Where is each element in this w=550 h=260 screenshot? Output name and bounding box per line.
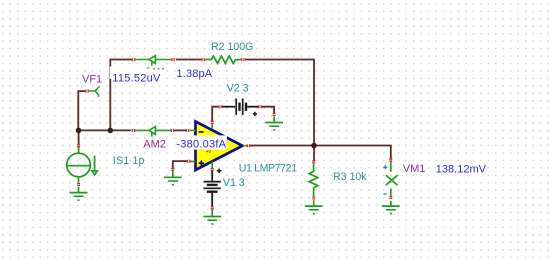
white box under 115.52uV bbox=[110, 67, 163, 80]
battery V2 plus sign bbox=[253, 112, 257, 116]
VM1 minus mark bbox=[383, 193, 386, 195]
svg-text:1.38pA: 1.38pA bbox=[177, 68, 213, 80]
svg-text:R2 100G: R2 100G bbox=[211, 41, 253, 53]
pin mark VF1 bbox=[86, 90, 88, 93]
junction node A (VF1/IS1) bbox=[76, 128, 82, 134]
wire opamp top supply to V2 bbox=[212, 107, 218, 121]
resistor R2 bbox=[205, 56, 241, 63]
ground VM1 bbox=[382, 206, 400, 214]
battery V1 plus sign bbox=[217, 169, 222, 174]
VF1 value marker dots bbox=[147, 66, 165, 74]
current arrow (1.38pA) on top rail bbox=[135, 56, 171, 66]
pin mark opamp top supply bbox=[211, 121, 214, 123]
wire inverting input rail bbox=[79, 129, 186, 131]
white box under -380.03fA bbox=[175, 135, 227, 149]
junction node OUT bbox=[311, 143, 317, 149]
op-amp U1 triangle bbox=[196, 122, 243, 171]
pin marks R2 bbox=[202, 58, 204, 61]
VM1 plus mark bbox=[383, 165, 387, 169]
wire output rail bbox=[250, 146, 391, 159]
svg-text:-380.03fA: -380.03fA bbox=[176, 138, 226, 150]
pin mark V2 ground bbox=[273, 114, 276, 116]
svg-text:V1 3: V1 3 bbox=[223, 177, 245, 189]
wire R3 branch bbox=[313, 146, 315, 161]
pin mark opamp +input bbox=[188, 160, 190, 163]
voltage pin VF1 probe bbox=[89, 87, 100, 97]
ground R3 bbox=[305, 200, 323, 213]
ammeter AM2 on inverting rail bbox=[135, 127, 171, 137]
ground IS1 bbox=[70, 187, 88, 200]
wire opamp + input bbox=[173, 161, 187, 168]
ground opamp + input bbox=[164, 171, 182, 185]
pin marks VM1 bbox=[389, 159, 392, 161]
pin marks IS1 bbox=[77, 145, 80, 147]
junction node B (feedback) bbox=[108, 128, 114, 134]
ground V2 bbox=[265, 117, 283, 131]
pin mark opamp+ ground bbox=[171, 168, 174, 170]
svg-text:U1 LMP7721: U1 LMP7721 bbox=[239, 162, 297, 174]
pin mark V1 bottom bbox=[211, 207, 214, 209]
value 138.12mV bbox=[435, 163, 485, 177]
svg-text:AM2: AM2 bbox=[143, 138, 166, 150]
svg-text:VF1: VF1 bbox=[82, 74, 102, 86]
pin marks V2 bbox=[219, 105, 221, 108]
voltmeter VM1 bbox=[386, 162, 398, 207]
svg-text:VM1: VM1 bbox=[403, 163, 426, 175]
pin marks R3 bbox=[312, 161, 315, 163]
pin mark opamp output bbox=[247, 144, 249, 147]
svg-text:R3 10k: R3 10k bbox=[333, 171, 367, 183]
op-amp minus sign bbox=[199, 131, 204, 133]
svg-text:138.12mV: 138.12mV bbox=[436, 163, 487, 175]
pin mark opamp bottom supply / V1 top bbox=[211, 169, 214, 171]
pin marks AM2 bbox=[132, 129, 134, 132]
ground V1 bbox=[203, 209, 221, 224]
wire IS1 branch bbox=[78, 130, 80, 144]
svg-text:V2 3: V2 3 bbox=[227, 83, 249, 95]
wire V2 right to ground bbox=[261, 107, 274, 113]
svg-text:IS1 1p: IS1 1p bbox=[113, 155, 145, 167]
red pin marks bbox=[77, 58, 392, 209]
op-amp plus sign bbox=[199, 160, 205, 166]
battery V2 bbox=[222, 99, 259, 115]
resistor R3 bbox=[309, 164, 318, 197]
wire feedback top rail bbox=[110, 60, 314, 146]
value 1.38pA bbox=[176, 67, 212, 80]
wire VF1 branch bbox=[78, 91, 85, 130]
pin marks top rail arrow bbox=[132, 58, 134, 61]
svg-text:115.52uV: 115.52uV bbox=[112, 73, 161, 85]
current source IS1 bbox=[67, 147, 98, 182]
battery V1 bbox=[204, 170, 221, 206]
op-amp input pins (green) bbox=[190, 123, 247, 168]
pin mark opamp -input bbox=[186, 129, 188, 132]
